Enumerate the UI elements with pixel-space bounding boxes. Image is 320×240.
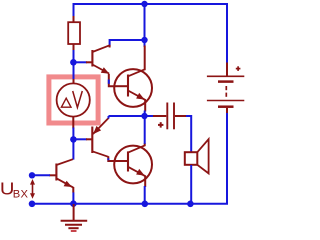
wire: battery to bottom rail [226, 113, 228, 204]
wire: node A to Q1 base [73, 61, 87, 63]
wire: Q4 emitter to output node [108, 116, 110, 119]
node C: output junction [141, 113, 147, 119]
wire: Q4 collector to Q5 base [108, 156, 115, 161]
wire: delta-V to node B [72, 128, 74, 160]
ground [61, 204, 88, 231]
highlight square around delta-V source [49, 77, 98, 123]
battery B1 [207, 63, 244, 115]
node: emitter/ground junction [70, 200, 77, 207]
bottom rail wire [32, 203, 228, 205]
node: input top terminal [29, 172, 35, 178]
wire: Q1 collector to rail [110, 40, 145, 46]
wire: Q2 emitter to output node [144, 111, 146, 118]
top supply rail wire [74, 4, 228, 64]
svg-text:BX: BX [13, 189, 29, 201]
wire: speaker to bottom rail [190, 165, 192, 204]
delta-V source U1 [57, 79, 90, 129]
wire: Q3 emitter to rail [72, 192, 74, 204]
wire: Q5 emitter to bottom rail [144, 186, 146, 204]
wire: V+ vertical to Q1 collector row [144, 4, 146, 47]
node: Q1 collector junction [141, 37, 147, 43]
input voltage double arrow [30, 179, 35, 199]
label: capacitor plus [158, 122, 163, 127]
wire: Q1 emitter to Q2 base [109, 74, 116, 86]
transistor Q4 (pnp driver) [86, 118, 109, 157]
node: top rail junction [141, 1, 147, 7]
transistor Q5 (npn output, circled) [114, 143, 152, 187]
wire: output node to Q5 collector [144, 116, 146, 144]
node B: driver junction [70, 136, 77, 143]
wire: input terminal to Q3 base [32, 174, 50, 176]
transistor Q2 (npn output, circled) [114, 46, 152, 112]
wire: capacitor to speaker [186, 116, 191, 153]
wire: resistor to base node [73, 50, 75, 81]
node: speaker rail junction [187, 201, 194, 208]
node: input bottom terminal [29, 201, 36, 208]
wire: output node horizontal [109, 115, 154, 117]
node A: bias junction [70, 59, 77, 66]
transistor Q3 (npn input) [49, 159, 73, 192]
wire: node B to Q4 base [73, 138, 87, 140]
transistor Q1 (npn driver) [86, 45, 110, 74]
label: battery plus [236, 66, 241, 71]
speaker LS1 [185, 139, 209, 173]
capacitor C1 (polarized) [153, 103, 187, 130]
resistor R1 [68, 16, 80, 51]
node: Q5 rail junction [142, 201, 149, 208]
